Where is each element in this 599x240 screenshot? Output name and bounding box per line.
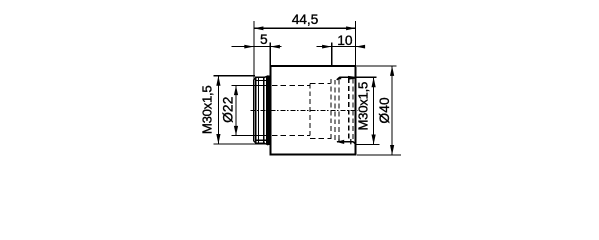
thread window top right arrowhead [348, 76, 355, 80]
extension tick body left edge [269, 42, 271, 66]
10 left arrowhead [322, 45, 332, 49]
svg-text:44,5: 44,5 [292, 12, 319, 27]
M30 right bottom arrowhead [372, 135, 376, 145]
bore D22 top line [231, 78, 353, 141]
M30 right dimension line [373, 77, 375, 144]
M30 right extension line bottom [356, 144, 380, 146]
counterbore top line [310, 82, 331, 84]
D40 dimension line [391, 66, 393, 155]
internal thread vertical c [348, 78, 350, 141]
root top [257, 80, 268, 82]
dimension 44,5 extension line left [213, 21, 401, 155]
internal thread end vertical [330, 79, 332, 142]
M30 left extension line top [213, 75, 255, 77]
44,5 left arrowhead [254, 26, 264, 30]
thread runout tick b2 [338, 139, 340, 142]
svg-text:M30x1,5: M30x1,5 [200, 86, 215, 134]
D22 extension line bottom [231, 134, 253, 136]
thread window top bar [339, 76, 348, 78]
svg-text:10: 10 [337, 33, 353, 48]
10 right arrowhead [356, 45, 366, 49]
thread line c [266, 76, 268, 144]
M30 left top arrowhead [216, 76, 220, 86]
end face [253, 80, 255, 142]
extension tick thread end [331, 42, 333, 66]
thread line a [258, 77, 260, 143]
bore step vertical [309, 83, 311, 138]
centerline [250, 110, 357, 112]
D22 top arrowhead [234, 86, 238, 96]
thread window bottom arrowhead [336, 140, 344, 144]
dimension 44,5 extension line right [355, 21, 357, 66]
thread window top chamfer diagonal [337, 77, 340, 80]
D40 extension line top [357, 65, 397, 67]
crest bottom [255, 143, 265, 145]
thread window top small wedge [337, 77, 342, 80]
left thread neck M30x1.5 [254, 76, 269, 145]
thread runout tick d [350, 139, 352, 144]
svg-text:5: 5 [260, 32, 268, 47]
svg-text:Ø22: Ø22 [221, 97, 236, 123]
dimension line 10 [316, 46, 362, 48]
thread window bottom chamfer diagonal [353, 142, 356, 145]
bore D22 bottom line [231, 134, 270, 136]
neck chamfer top [254, 77, 257, 80]
crest top [255, 76, 265, 78]
D22 bottom arrowhead [234, 126, 238, 135]
dimension line 44,5 [254, 27, 355, 29]
M30 left dimension line [217, 76, 219, 144]
internal thread vertical b [334, 80, 336, 141]
runout bottom diagonal [265, 144, 269, 145]
44,5 right arrowhead [346, 26, 356, 30]
arrowheads [216, 26, 394, 155]
runout top diagonal [265, 76, 269, 77]
internal thread vertical b2 [338, 80, 340, 141]
D22 extension line top [231, 85, 253, 87]
body outline cylinder D40 [270, 66, 355, 155]
label 44,5 [200, 12, 392, 134]
D22 dimension line [235, 86, 237, 136]
thread window bottom bar [337, 141, 353, 143]
thread line b [263, 77, 265, 143]
counterbore bottom line [310, 137, 331, 139]
chamfer circle line [255, 77, 257, 143]
5 right arrowhead [270, 45, 280, 49]
root bottom [257, 139, 268, 141]
M30 left bottom arrowhead [216, 134, 220, 144]
svg-text:M30x1,5: M30x1,5 [355, 82, 370, 130]
D40 top arrowhead [390, 66, 394, 76]
D40 extension line bottom [357, 154, 401, 156]
diagonals group (smooth) [254, 76, 356, 145]
5 left arrowhead [244, 45, 254, 49]
internal thread vertical d [352, 79, 354, 142]
M30 left extension line bottom [213, 143, 265, 145]
dimension line 5 [231, 46, 281, 48]
neck chamfer bottom [254, 141, 257, 144]
M30 right top arrowhead [372, 77, 376, 87]
svg-text:Ø40: Ø40 [377, 97, 392, 124]
D40 bottom arrowhead [390, 145, 394, 155]
runout line [268, 76, 270, 145]
M30 right extension line top [356, 76, 377, 78]
